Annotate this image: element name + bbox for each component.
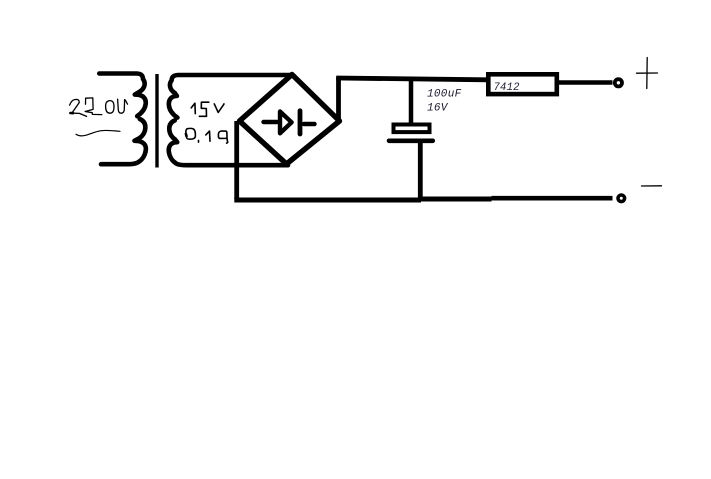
svg-text:16V: 16V — [427, 103, 449, 115]
svg-text:7412: 7412 — [494, 82, 520, 94]
svg-text:100uF: 100uF — [427, 89, 462, 101]
